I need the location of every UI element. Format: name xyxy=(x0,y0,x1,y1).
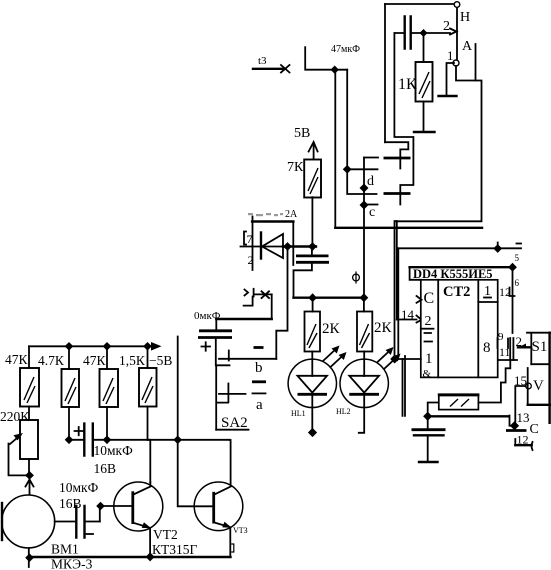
node row left xyxy=(65,436,74,445)
arrow into mic xyxy=(26,480,34,496)
wire rail to R9 xyxy=(363,298,365,312)
svg-text:47К: 47К xyxy=(5,352,29,367)
switch SA2 arm 2 xyxy=(219,384,246,403)
arrowhead -5V xyxy=(151,342,162,351)
capacitor C3 electrolytic xyxy=(198,319,232,365)
microphone BM1 xyxy=(2,495,55,567)
IC DD4 body xyxy=(421,280,498,378)
svg-text:&: & xyxy=(423,368,432,380)
node cathode junction xyxy=(283,242,292,251)
dash marks xyxy=(425,333,433,342)
node anode junction xyxy=(308,242,317,251)
wire -5V rail xyxy=(29,345,153,347)
svg-text:d: d xyxy=(367,174,374,189)
wire long drop to VT3 base xyxy=(178,337,214,507)
pin 12 bracket xyxy=(510,288,515,297)
tick on reset row xyxy=(404,356,406,359)
key A gate plate xyxy=(384,157,411,160)
register DD5 S1 box xyxy=(527,333,551,423)
resistor R10 xyxy=(438,395,480,410)
ground below R7 xyxy=(414,131,435,133)
svg-text:КТ315Г: КТ315Г xyxy=(152,542,198,557)
node rail left xyxy=(308,293,317,302)
dash under out1 xyxy=(484,297,491,299)
svg-text:t3: t3 xyxy=(258,55,267,67)
capacitor C5 xyxy=(55,506,100,538)
svg-text:DD4 К555ИЕ5: DD4 К555ИЕ5 xyxy=(413,267,493,281)
svg-text:5: 5 xyxy=(515,253,520,263)
svg-text:СТ2: СТ2 xyxy=(443,284,470,300)
resistor R6 7K xyxy=(304,160,321,198)
pin C wedge xyxy=(417,296,422,303)
node R3 rail xyxy=(103,342,112,351)
capacitor C2 under diode xyxy=(294,247,330,298)
resistor R1 47K xyxy=(20,346,39,406)
svg-text:14: 14 xyxy=(401,307,415,322)
node junction on feed wire xyxy=(331,66,339,74)
resistor R5 220K variable xyxy=(10,407,38,460)
switch SA1 top contact circle xyxy=(454,2,460,8)
arrow 5V supply xyxy=(309,142,318,160)
wire d-c column xyxy=(363,158,365,298)
wire reset row into IC xyxy=(395,358,421,360)
node row mid xyxy=(103,436,112,445)
resistor R7 1K xyxy=(416,62,433,102)
stub above node xyxy=(497,243,499,249)
wire SA2 left drop xyxy=(215,365,217,429)
switch SA1 bottom contact circle pin 1 xyxy=(453,60,459,66)
wire double drop to RC xyxy=(403,359,406,416)
svg-text:7: 7 xyxy=(247,232,253,246)
wire cathode to SA2 arm b xyxy=(276,247,287,360)
svg-text:Н: Н xyxy=(460,10,470,25)
LED HL1 xyxy=(288,352,336,433)
node diamond R reset xyxy=(390,355,399,364)
wire rail to LED resistors xyxy=(294,297,365,299)
V row box lines xyxy=(527,368,529,405)
svg-text:5В: 5В xyxy=(294,126,310,141)
svg-text:HL2: HL2 xyxy=(336,407,351,416)
label pin 7 xyxy=(244,232,253,247)
wire R4 bottom to row xyxy=(147,407,149,440)
node junction on C1 wire xyxy=(420,29,428,37)
svg-text:2: 2 xyxy=(248,253,254,267)
wire coupling row xyxy=(69,439,230,441)
resistor R2 4.7K xyxy=(62,346,80,407)
wire pin row xyxy=(499,359,518,361)
node on label box line xyxy=(508,263,517,272)
svg-text:c: c xyxy=(369,205,375,220)
wire pin1 to ground xyxy=(447,63,455,95)
wire pin1 down right long run xyxy=(396,66,482,221)
svg-text:47мкФ: 47мкФ xyxy=(331,44,360,55)
svg-text:1К: 1К xyxy=(398,76,417,93)
svg-text:47К: 47К xyxy=(83,353,107,368)
wire R10 right staircase up xyxy=(478,360,510,403)
wire upper feed to DD4 xyxy=(395,221,397,359)
svg-text:b: b xyxy=(255,360,263,376)
resistor R9 2K xyxy=(357,312,372,352)
inversion circle V input xyxy=(526,383,532,389)
wire wiper down xyxy=(9,444,30,476)
wire R7 to ground xyxy=(423,102,425,132)
capacitor C4 10mkF xyxy=(84,424,93,456)
node d xyxy=(360,184,369,193)
resistor R4 1.5K xyxy=(139,346,157,406)
node mic ground xyxy=(25,553,34,562)
svg-text:16В: 16В xyxy=(59,496,82,511)
wire node to R10 xyxy=(428,403,439,417)
wire anode row xyxy=(283,245,316,247)
wire to counter top xyxy=(398,247,521,249)
tick right end xyxy=(517,243,522,245)
label box DD4 K555IE5 xyxy=(410,267,513,281)
svg-text:2А: 2А xyxy=(285,209,298,220)
wire rail to node xyxy=(510,416,515,426)
wire DD4 top feed xyxy=(397,248,399,356)
svg-text:МКЭ-3: МКЭ-3 xyxy=(51,557,93,570)
svg-text:10мкФ: 10мкФ xyxy=(94,443,134,458)
LED HL2 xyxy=(340,352,388,433)
wire pin 14 xyxy=(397,319,417,321)
optocoupler U1 box xyxy=(252,220,293,222)
node F phi symbol xyxy=(353,272,360,284)
svg-text:1: 1 xyxy=(447,48,454,63)
wire from cross pin down to cap rail xyxy=(271,294,273,318)
label plus C4 xyxy=(75,427,84,435)
transistor VT3 xyxy=(194,482,243,557)
wire R2 R3 bottom to coupling row xyxy=(69,407,107,440)
bracket lower xyxy=(532,442,533,450)
wire below C7 xyxy=(515,444,531,446)
node VT2 base wire xyxy=(96,502,105,511)
svg-text:10мкФ: 10мкФ xyxy=(59,480,99,495)
node on top wire xyxy=(493,244,502,253)
svg-text:VТЗ: VТЗ xyxy=(233,526,248,535)
ground at pin1 xyxy=(439,95,457,97)
svg-text:−5В: −5В xyxy=(149,353,172,368)
svg-text:a: a xyxy=(256,397,263,413)
optocoupler label faded xyxy=(248,209,298,220)
wire left drop from top rail xyxy=(384,4,386,142)
wire staircase to key A gate xyxy=(385,142,408,168)
svg-text:ВМ1: ВМ1 xyxy=(51,542,79,557)
wire C1 node to R7 xyxy=(423,33,425,62)
wire from label box node down xyxy=(512,267,514,333)
svg-text:13: 13 xyxy=(517,410,530,425)
label plus C3 xyxy=(202,342,211,350)
switch SA2 arm 1 xyxy=(219,351,276,361)
wire drops to pin row xyxy=(510,338,513,360)
pin brackets 9 11 xyxy=(498,338,509,348)
node HL1 bottom xyxy=(308,428,317,437)
wire R6 to anode node xyxy=(311,197,313,246)
switch SA2 thin contact line xyxy=(253,392,266,394)
svg-text:2К: 2К xyxy=(322,321,341,337)
node VT2 emitter ground xyxy=(146,552,155,561)
switch SA2 label bracket xyxy=(216,403,248,430)
svg-text:16В: 16В xyxy=(94,461,117,476)
svg-text:SА2: SА2 xyxy=(221,415,248,431)
svg-text:C: C xyxy=(424,290,435,307)
switch SA2 contact b dash xyxy=(254,346,264,349)
LED HL2 arrows xyxy=(378,347,401,369)
switch SA1 common vertical xyxy=(456,7,458,60)
svg-text:8: 8 xyxy=(483,340,491,356)
wire drop to node d column xyxy=(347,70,376,194)
node mic junction xyxy=(25,471,34,480)
node RC xyxy=(423,412,432,421)
resistor R3 47K xyxy=(100,346,119,407)
svg-text:S1: S1 xyxy=(532,339,548,355)
wire C5 to VT2 base xyxy=(100,506,133,522)
wire stub right of A xyxy=(475,44,477,81)
node row right xyxy=(173,436,182,445)
capacitor C6 xyxy=(412,416,446,462)
svg-text:1,5К: 1,5К xyxy=(119,353,146,368)
svg-text:VT2: VT2 xyxy=(153,527,178,542)
wire row to VT3 collector xyxy=(229,440,232,486)
LED HL1 arrows xyxy=(324,346,347,368)
wire node row at 169 xyxy=(347,168,377,170)
wire rail horizontal mid xyxy=(335,227,482,229)
node rail right xyxy=(360,293,369,302)
wire VT2 collector xyxy=(148,440,151,483)
switch SA1 contact 2 arrowhead xyxy=(450,29,457,35)
key B gate plate xyxy=(384,192,411,195)
svg-text:C: C xyxy=(530,422,539,437)
svg-text:2К: 2К xyxy=(374,320,393,336)
node t3 input xyxy=(253,55,290,73)
wire ground rail bottom xyxy=(29,556,231,558)
svg-text:V: V xyxy=(533,378,544,394)
svg-text:4.7К: 4.7К xyxy=(38,353,65,368)
node R4 rail xyxy=(143,342,152,351)
switch SA2 contact a dash xyxy=(252,380,266,383)
bracket mark right xyxy=(231,544,234,552)
wire from C1 to key B gate xyxy=(394,33,413,205)
pin 14 wedge xyxy=(417,316,422,323)
node R2 rail xyxy=(65,342,74,351)
wire rail to R8 xyxy=(312,298,314,312)
unused pin mark with cross xyxy=(244,289,272,306)
resistor R8 2K xyxy=(305,312,321,352)
wire top rail to switch SA1 xyxy=(385,3,453,5)
svg-text:А: А xyxy=(462,39,473,54)
wire top bracket of column xyxy=(364,157,378,159)
svg-text:1: 1 xyxy=(425,351,433,367)
node at C7 xyxy=(510,421,519,430)
svg-text:9: 9 xyxy=(498,331,504,343)
svg-text:2: 2 xyxy=(425,314,432,329)
diode VD1 in optocoupler xyxy=(241,233,284,259)
wire c row xyxy=(364,204,378,206)
capacitor C7 plate xyxy=(506,429,527,432)
node c xyxy=(360,201,369,210)
capacitor C1 47mkF xyxy=(394,17,450,49)
wire V input drop xyxy=(515,386,525,426)
svg-text:HL1: HL1 xyxy=(291,409,306,418)
wire RC bottom rail xyxy=(428,415,509,417)
wire cap rail left xyxy=(216,318,271,320)
node diamond on column xyxy=(343,165,352,174)
wire R5 bottom xyxy=(28,459,30,475)
svg-text:6: 6 xyxy=(515,278,520,288)
wire oscillator feed with node xyxy=(305,47,347,69)
svg-text:2: 2 xyxy=(443,19,450,34)
wire long drop to rail xyxy=(334,70,336,227)
wire wedge to S1 box xyxy=(518,346,531,348)
transistor VT2 xyxy=(114,482,163,558)
svg-text:7К: 7К xyxy=(287,160,304,175)
wedge to S1 xyxy=(518,344,526,348)
